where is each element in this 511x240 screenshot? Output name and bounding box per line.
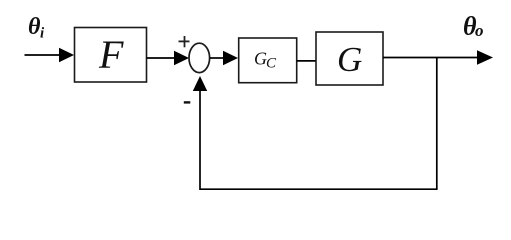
svg-text:C: C [266, 55, 277, 71]
wire F to summing junction [147, 51, 190, 65]
wire output from G with arrow [383, 50, 493, 64]
block Gc [239, 38, 297, 83]
wire summing junction to Gc [210, 51, 238, 65]
wire Gc to G [297, 60, 316, 62]
wire feedback up into summing junction [193, 76, 207, 190]
svg-text:o: o [475, 21, 484, 40]
svg-text:G: G [337, 40, 362, 79]
node theta_o output label [463, 12, 484, 41]
svg-text:i: i [40, 26, 45, 42]
minus sign label [184, 101, 191, 103]
svg-text:F: F [98, 32, 124, 77]
block G [316, 32, 383, 85]
node theta_i input label [28, 14, 45, 42]
wire feedback bottom horizontal [200, 188, 438, 190]
wire feedback branch down from output [436, 58, 438, 190]
block F [75, 28, 147, 83]
wire input arrow into F [25, 48, 75, 62]
summing junction [189, 43, 210, 72]
plus sign label [179, 36, 190, 47]
